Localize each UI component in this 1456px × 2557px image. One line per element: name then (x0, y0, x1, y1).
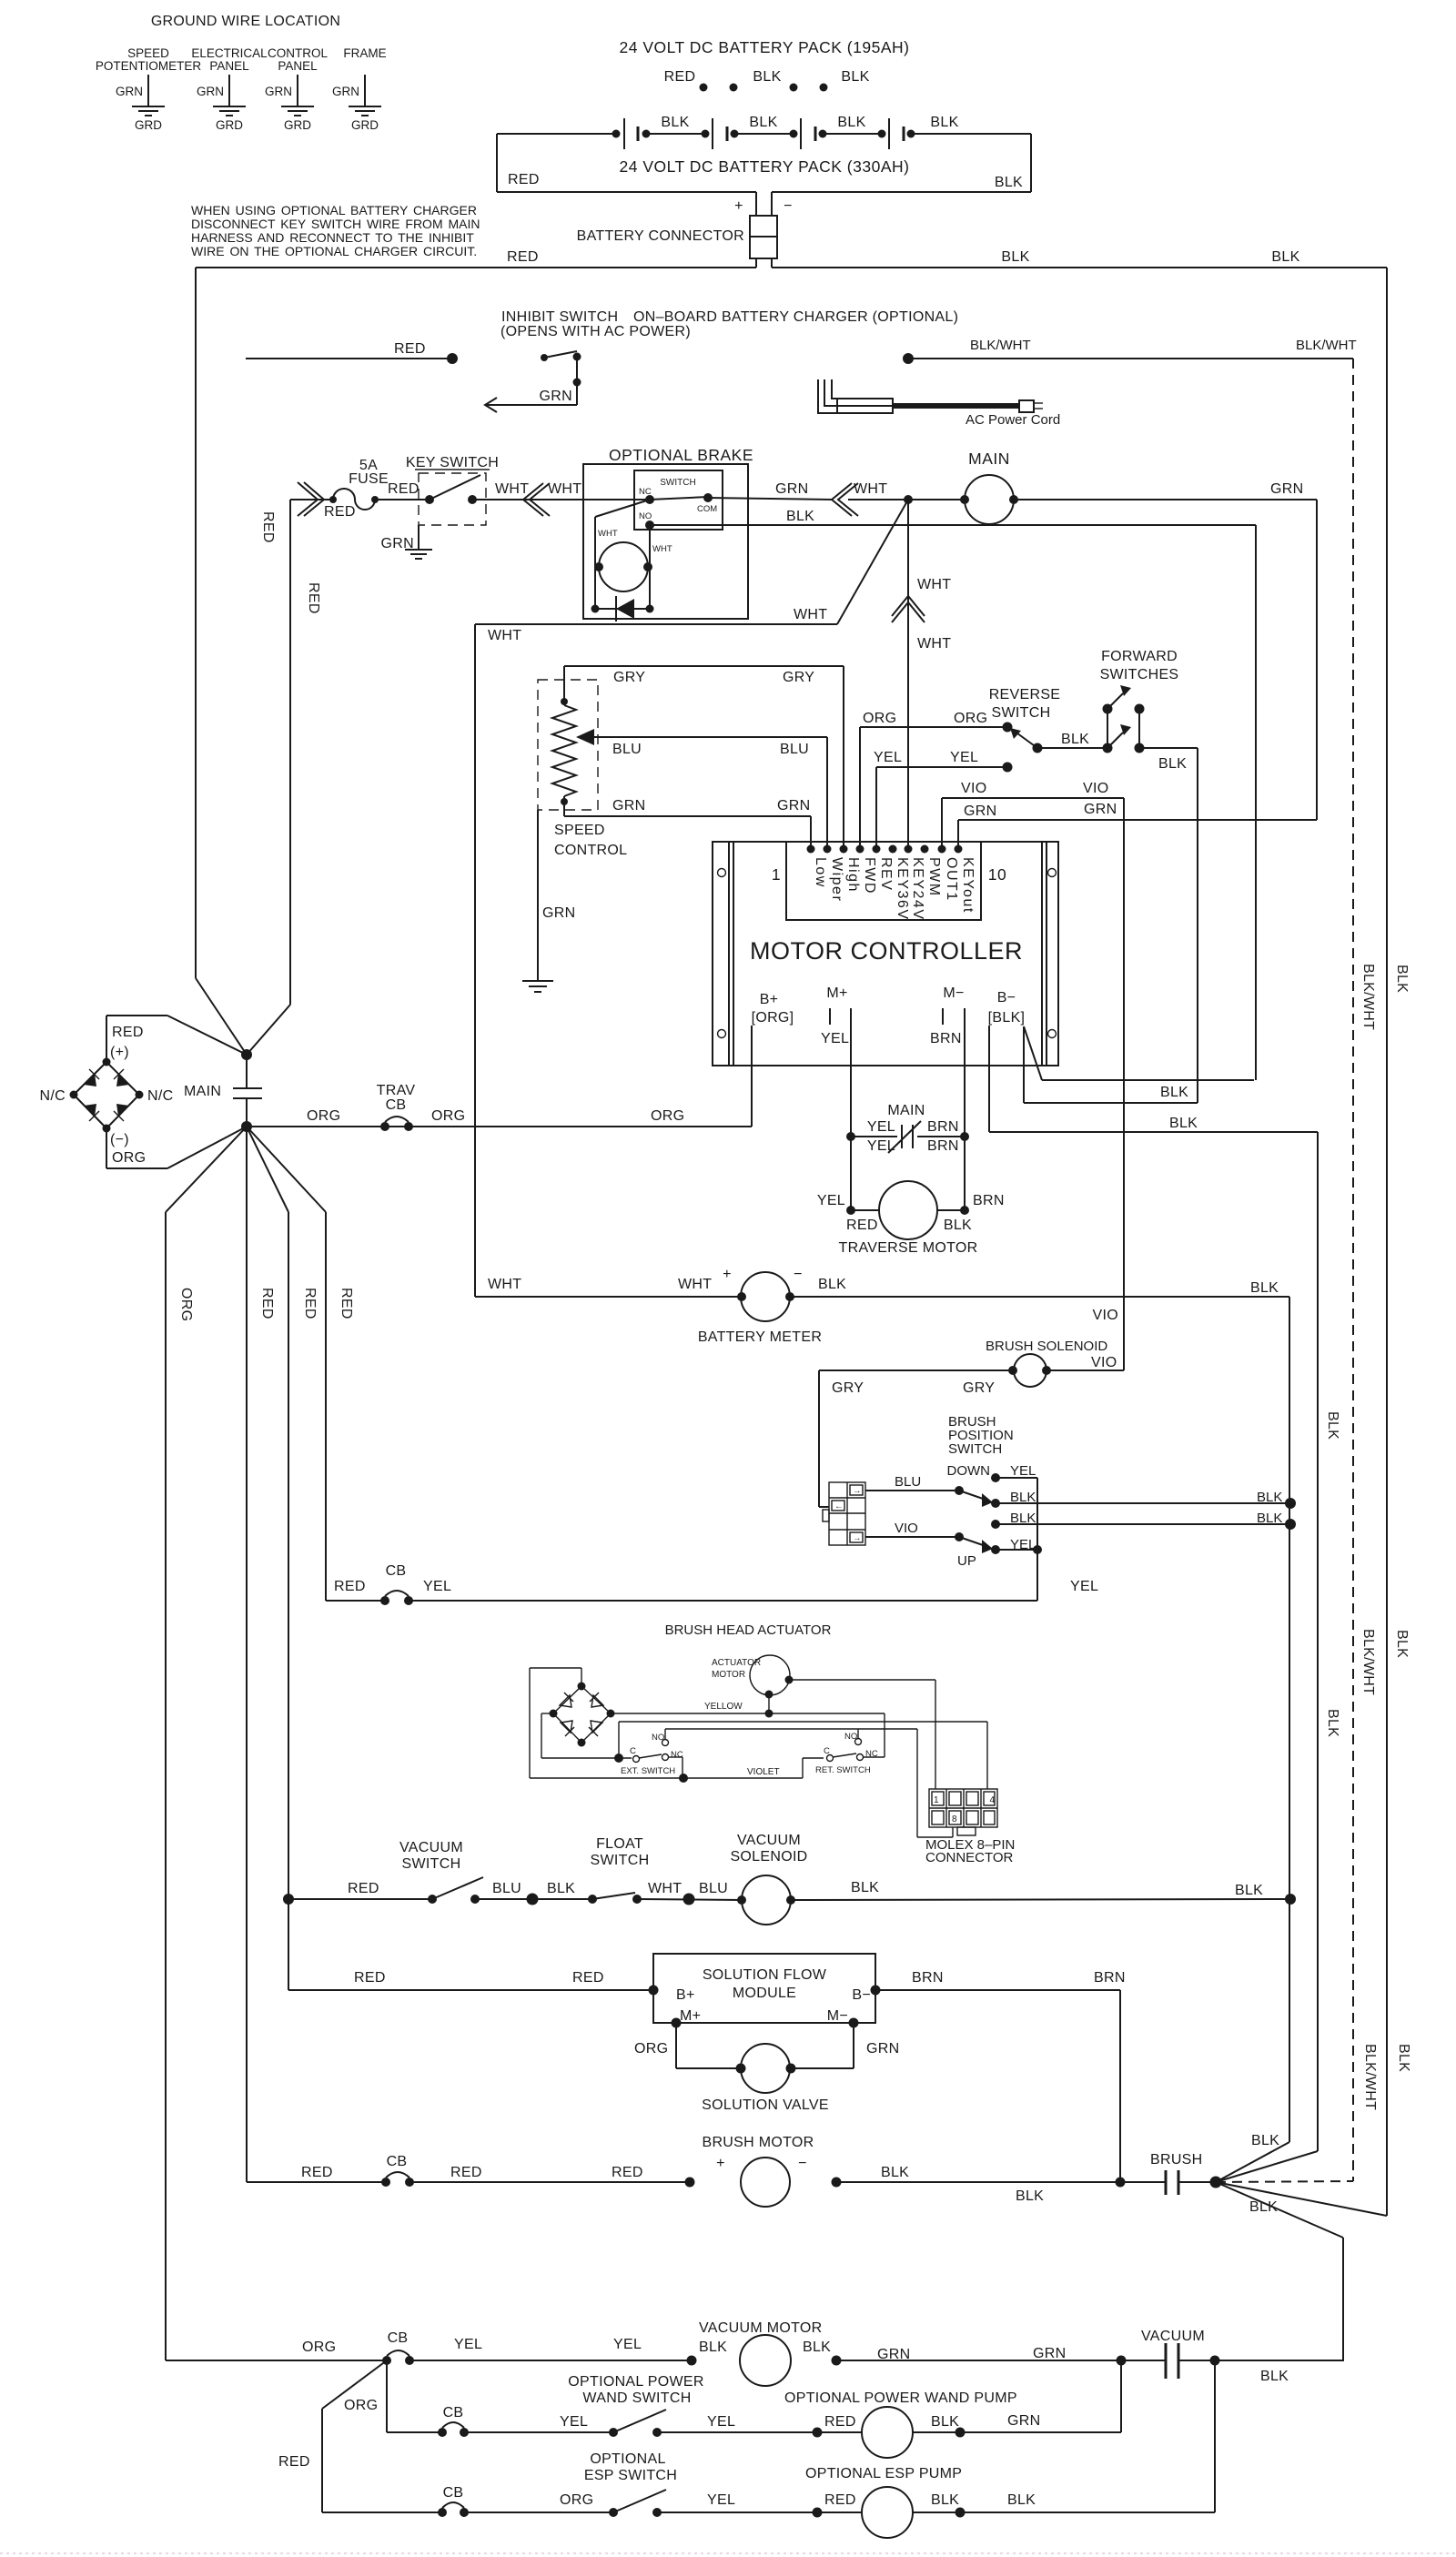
svg-text:SOLUTION FLOW: SOLUTION FLOW (703, 1967, 827, 1983)
svg-text:GRN: GRN (612, 798, 645, 814)
svg-text:BLK: BLK (1271, 249, 1299, 265)
svg-text:BLK: BLK (749, 115, 777, 130)
ground symbol speed control (522, 981, 553, 992)
wire actuator motor to molex pin1 (789, 1680, 935, 1789)
actuator bridge rectifier (550, 1683, 615, 1747)
chevron wire-break right-pointing (298, 482, 324, 516)
battery cell B3 (790, 118, 827, 149)
junction dot fuse left (329, 496, 337, 503)
wire YEL REV pin to reverse switch throw (874, 750, 1013, 849)
wire RED key switch rail with vertical x320 to bridge (247, 500, 333, 1055)
chevron wire-break left-pointing at WHT (523, 483, 550, 516)
junction dot RED feed vacuum rail (283, 1894, 294, 1905)
svg-text:ORG: ORG (651, 1108, 684, 1124)
svg-text:−: − (794, 1267, 803, 1282)
svg-text:POTENTIOMETER: POTENTIOMETER (96, 59, 202, 73)
svg-text:OPTIONAL POWER WAND PUMP: OPTIONAL POWER WAND PUMP (784, 2390, 1017, 2406)
svg-text:ORG: ORG (178, 1288, 194, 1321)
wire bridge plus pentagon to node (106, 1016, 247, 1062)
wire fuse to key switch (375, 499, 430, 500)
svg-text:RED: RED (339, 1288, 354, 1319)
esp pump (862, 2487, 966, 2538)
svg-text:OPTIONAL ESP PUMP: OPTIONAL ESP PUMP (805, 2466, 962, 2481)
svg-text:GRN: GRN (540, 389, 572, 404)
brush solenoid (986, 1339, 1124, 1387)
svg-text:M+: M+ (826, 985, 847, 1001)
actuator motor (712, 1655, 794, 1699)
svg-text:[BLK]: [BLK] (988, 1010, 1026, 1026)
svg-text:RED: RED (348, 1881, 379, 1896)
svg-text:YEL: YEL (560, 2414, 588, 2430)
svg-text:YEL: YEL (817, 1193, 845, 1208)
wire RED vertical bus x215 from battery bus to bridge (196, 268, 247, 1055)
svg-text:BLK: BLK (1257, 1511, 1282, 1526)
svg-text:VACUUM MOTOR: VACUUM MOTOR (699, 2320, 822, 2336)
wire RED esp branch (278, 2360, 387, 2512)
svg-text:CB: CB (386, 1563, 407, 1579)
svg-text:GROUND WIRE LOCATION: GROUND WIRE LOCATION (151, 14, 340, 29)
brush motor (716, 2156, 841, 2207)
vacuum solenoid (737, 1875, 795, 1925)
wire BLK B- left to x1448 bus (989, 1026, 1318, 2151)
svg-text:ORG: ORG (863, 711, 896, 726)
svg-text:OUT1: OUT1 (944, 857, 959, 902)
wire BLK B- to forward switch bus (1024, 1026, 1198, 1103)
svg-text:GRN: GRN (1270, 481, 1303, 497)
svg-text:ORG: ORG (560, 2492, 593, 2508)
svg-text:(−): (−) (110, 1132, 129, 1147)
svg-text:BRN: BRN (1094, 1970, 1126, 1986)
svg-text:CB: CB (386, 1097, 407, 1113)
svg-text:ORG: ORG (344, 2398, 378, 2413)
svg-text:ON–BOARD BATTERY CHARGER (O: ON–BOARD BATTERY CHARGER (OPTIONAL) (633, 309, 958, 325)
svg-text:Low: Low (813, 857, 828, 888)
wire BLK brake NO to right bus (650, 509, 1256, 1080)
svg-text:BRUSH: BRUSH (1150, 2152, 1203, 2168)
wire EXT NC to violet rail (668, 1757, 688, 1783)
svg-text:BRN: BRN (927, 1119, 959, 1135)
wire RED main bus y294 (196, 249, 756, 268)
wire BLK brush motor to brush contact (836, 2165, 1166, 2204)
svg-text:BLK: BLK (699, 2340, 727, 2355)
svg-text:CONTROL: CONTROL (554, 843, 627, 858)
svg-text:→: → (853, 1486, 862, 1496)
svg-text:GRN: GRN (777, 798, 810, 814)
wire GRN key switch ground drop (381, 525, 419, 551)
svg-text:FRAME: FRAME (343, 46, 386, 60)
wire brake NO down to diode (649, 525, 651, 609)
svg-text:BLK/WHT: BLK/WHT (1362, 2044, 1378, 2110)
svg-text:DOWN: DOWN (947, 1463, 991, 1479)
svg-text:BLK/WHT: BLK/WHT (1360, 1629, 1376, 1695)
wire BLU vacuum switch to float switch (475, 1881, 592, 1905)
wire BLK cell1-cell2 (646, 115, 705, 134)
svg-text:ORG: ORG (307, 1108, 340, 1124)
ground drop ELECTRICAL PANEL (191, 46, 268, 132)
svg-text:YEL: YEL (1070, 1579, 1098, 1594)
svg-text:RED: RED (324, 504, 356, 520)
svg-text:SWITCHES: SWITCHES (1100, 667, 1179, 682)
svg-text:BLK: BLK (1251, 2133, 1279, 2148)
svg-text:BRUSH SOLENOID: BRUSH SOLENOID (986, 1339, 1107, 1354)
svg-text:RED: RED (572, 1970, 604, 1986)
wire BLK esp pump to vacuum rail (913, 2360, 1215, 2512)
svg-text:COM: COM (697, 504, 717, 514)
svg-text:YEL: YEL (874, 750, 902, 765)
svg-text:WIRE ON THE OPTIONAL CHARGER C: WIRE ON THE OPTIONAL CHARGER CIRCUIT. (191, 244, 477, 258)
wire BLK cell4 to loop right (911, 115, 1031, 134)
svg-text:High: High (845, 857, 861, 893)
svg-text:GRN: GRN (1033, 2346, 1066, 2361)
esp switch (609, 2490, 666, 2517)
svg-text:←: ← (834, 1501, 844, 1511)
svg-text:FWD: FWD (862, 857, 877, 894)
svg-text:VACUUM: VACUUM (1141, 2329, 1205, 2344)
svg-text:MAIN: MAIN (968, 450, 1010, 468)
svg-text:BLK: BLK (753, 69, 781, 85)
controller terminal M- (930, 985, 965, 1046)
svg-text:+: + (723, 1267, 732, 1282)
wire YEL RED wand switch to pump (657, 2414, 862, 2438)
svg-text:RED: RED (664, 69, 696, 85)
svg-text:GRN: GRN (116, 85, 143, 98)
wire BLK up switch to x1418 (991, 1511, 1296, 1530)
svg-text:GRD: GRD (216, 118, 243, 132)
svg-text:24 VOLT DC BATTERY PACK (: 24 VOLT DC BATTERY PACK (330AH) (620, 157, 910, 176)
label BRUSH POSITION SWITCH (948, 1414, 1014, 1457)
wire BLK fan to battery bus x1524 (1216, 2182, 1387, 2216)
svg-text:BLK: BLK (1169, 1116, 1198, 1131)
svg-text:MAIN: MAIN (184, 1084, 221, 1099)
controller pin dots 1-10 (807, 845, 963, 854)
svg-text:C: C (630, 1746, 636, 1756)
wire WHT vertical to controller KEY24V (908, 500, 951, 848)
wire BLK fan to x1448 bus (1216, 2151, 1318, 2182)
svg-text:N/C: N/C (40, 1088, 66, 1104)
svg-text:NO: NO (652, 1733, 664, 1743)
svg-text:WHT: WHT (652, 544, 672, 554)
MAIN coil (908, 450, 1018, 524)
svg-text:GRN: GRN (1084, 802, 1117, 817)
svg-text:GRD: GRD (351, 118, 379, 132)
svg-text:OPTIONAL POWER: OPTIONAL POWER (568, 2374, 703, 2390)
chevron wire-break left-pointing before MAIN (832, 483, 858, 516)
forward switches (1100, 649, 1179, 753)
svg-text:SWITCH: SWITCH (660, 478, 695, 488)
svg-text:KEY24V: KEY24V (910, 857, 925, 920)
svg-text:CB: CB (387, 2154, 408, 2169)
chevron wire-break up-pointing on WHT vertical (892, 596, 925, 622)
svg-text:BLK: BLK (1325, 1709, 1340, 1737)
svg-text:BLK: BLK (841, 69, 869, 85)
svg-text:VIO: VIO (961, 781, 986, 796)
wire GRN MAIN to right bus x1447 (1014, 481, 1317, 820)
svg-text:MOTOR: MOTOR (712, 1670, 745, 1680)
svg-text:RED: RED (388, 481, 420, 497)
svg-text:BLK: BLK (995, 175, 1023, 190)
wire VIO OUT1 to brush solenoid bus (942, 781, 1124, 1370)
svg-text:RED: RED (824, 2492, 856, 2508)
wire into brake NC (583, 499, 650, 500)
svg-text:(+): (+) (110, 1045, 129, 1060)
solution valve (634, 2023, 899, 2113)
svg-text:BLK: BLK (851, 1880, 879, 1895)
battery cell B4 (878, 118, 915, 149)
reverse switch (989, 687, 1061, 748)
ground drop SPEED POTENTIOMETER (96, 46, 202, 132)
wire YEL rail brush lift (326, 1579, 1098, 1601)
wire YEL vacuum CB to motor (409, 2337, 727, 2366)
wire ORG FWD pin to reverse switch (860, 711, 1007, 849)
svg-text:SWITCH: SWITCH (948, 1441, 1002, 1457)
svg-text:BLU: BLU (780, 742, 809, 757)
AC power cord (818, 379, 1060, 428)
svg-text:YEL: YEL (950, 750, 978, 765)
brush position UP contact (957, 1478, 1042, 1601)
wire BLK right vertical bus x1524 (1386, 268, 1388, 2216)
svg-text:BLU: BLU (895, 1474, 921, 1490)
wire NO net to molex pin8 (665, 1729, 953, 1837)
svg-text:ORG: ORG (112, 1150, 146, 1166)
svg-text:PANEL: PANEL (209, 59, 249, 73)
svg-text:RED: RED (112, 1025, 144, 1040)
svg-text:−: − (798, 2156, 807, 2171)
svg-text:INHIBIT SWITCH: INHIBIT SWITCH (501, 309, 618, 325)
ground symbol key switch (405, 550, 432, 559)
svg-text:GRY: GRY (613, 670, 645, 685)
svg-text:NO: NO (639, 511, 652, 521)
battery pack 195AH stub dots with wire labels RED BLK BLK (664, 69, 870, 92)
svg-text:YEL: YEL (867, 1119, 895, 1135)
svg-text:RED: RED (334, 1579, 366, 1594)
wire BLK vacuum solenoid to x1418 bus (791, 1880, 1296, 1905)
controller terminal M+ (821, 985, 851, 1046)
wire GRN KEYout to GRN bus (958, 802, 1317, 849)
svg-text:BLK/WHT: BLK/WHT (970, 338, 1031, 353)
svg-text:B−: B− (997, 990, 1016, 1006)
controller terminal B- [BLK] (988, 990, 1026, 1026)
svg-text:BLK: BLK (1160, 1085, 1188, 1100)
solution flow module (649, 1954, 881, 2028)
battery cell B2 (702, 118, 739, 149)
page edge marker (0, 2552, 1456, 2554)
label VACUUM SWITCH (399, 1840, 463, 1872)
svg-text:−: − (784, 198, 793, 214)
wire ORG B+ to TRAV CB (247, 1026, 752, 1127)
wire bridge minus pentagon to node (106, 1127, 247, 1168)
circuit breaker brush CB (381, 2154, 414, 2187)
svg-text:WHT: WHT (548, 481, 581, 497)
svg-text:CB: CB (443, 2405, 464, 2421)
battery connector (577, 192, 793, 268)
svg-text:YEL: YEL (867, 1138, 895, 1154)
wire ORG branch to vacuum motor rail (166, 1127, 247, 2360)
svg-text:GRN: GRN (332, 85, 359, 98)
svg-text:BLK: BLK (1325, 1411, 1340, 1440)
svg-text:YELLOW: YELLOW (704, 1702, 743, 1712)
ground drop FRAME (332, 46, 387, 132)
wire RED branch to brush motor rail (246, 1127, 248, 2182)
svg-text:8: 8 (952, 1814, 957, 1824)
svg-text:GRY: GRY (832, 1380, 864, 1396)
wire BLK/WHT dashed vertical bus x1487 (1352, 359, 1354, 2181)
svg-text:KEY36V: KEY36V (895, 857, 910, 920)
svg-text:HARNESS AND RECONNECT TO THE I: HARNESS AND RECONNECT TO THE INHIBIT (191, 230, 474, 245)
svg-text:CONNECTOR: CONNECTOR (925, 1850, 1014, 1865)
svg-text:+: + (734, 198, 743, 214)
svg-text:VIO: VIO (895, 1521, 918, 1536)
svg-text:TRAVERSE MOTOR: TRAVERSE MOTOR (839, 1240, 978, 1256)
junction dot upper MAIN contactor node (241, 1049, 252, 1060)
svg-text:UP: UP (957, 1553, 976, 1569)
brake switch box (634, 470, 723, 530)
svg-text:MOTOR CONTROLLER: MOTOR CONTROLLER (750, 937, 1023, 965)
svg-text:BLU: BLU (492, 1881, 521, 1896)
svg-text:WHT: WHT (598, 529, 618, 539)
svg-text:BLK/WHT: BLK/WHT (1360, 964, 1376, 1030)
svg-text:BRUSH HEAD ACTUATOR: BRUSH HEAD ACTUATOR (665, 1622, 832, 1638)
actuator EXT switch (621, 1733, 683, 1776)
svg-text:RED: RED (450, 2165, 482, 2180)
svg-text:YEL: YEL (707, 2414, 735, 2430)
svg-text:B−: B− (852, 1987, 871, 2003)
label OPTIONAL ESP SWITCH (584, 2451, 677, 2483)
svg-text:24 VOLT DC BATTERY PACK (: 24 VOLT DC BATTERY PACK (195AH) (620, 38, 910, 56)
svg-text:BLU: BLU (699, 1881, 728, 1896)
brush position switch connector (823, 1482, 865, 1545)
svg-text:BRN: BRN (927, 1138, 959, 1154)
speed control potentiometer (538, 666, 627, 858)
wire GRN vacuum motor to vacuum contact (836, 2346, 1166, 2366)
brush position DOWN contact (947, 1463, 1038, 1482)
svg-text:SWITCH: SWITCH (992, 705, 1051, 721)
junction dot WHT node (904, 495, 913, 504)
svg-text:M−: M− (827, 2008, 848, 2024)
svg-text:BRN: BRN (973, 1193, 1005, 1208)
svg-text:YEL: YEL (1010, 1463, 1036, 1479)
molex 8-pin connector (925, 1789, 1015, 1865)
svg-text:GRN: GRN (1007, 2413, 1040, 2429)
svg-text:REVERSE: REVERSE (989, 687, 1061, 702)
contact MAIN contactor tips (233, 1055, 262, 1127)
svg-text:VIO: VIO (1091, 1355, 1117, 1370)
circuit breaker wand CB (387, 2405, 469, 2437)
wire BLU wiper to controller (576, 729, 827, 848)
svg-text:BLK/WHT: BLK/WHT (1296, 338, 1357, 353)
vacuum switch (428, 1877, 483, 1904)
svg-text:BLK: BLK (930, 115, 958, 130)
wire BLK forward switches to x1316 bus (1139, 748, 1198, 1103)
wire GRN inhibit arrow (485, 389, 577, 412)
svg-text:MODULE: MODULE (733, 1986, 796, 2001)
svg-text:VIO: VIO (1083, 781, 1108, 796)
svg-text:BLK: BLK (1257, 1490, 1282, 1505)
wire BLU to down switch (865, 1474, 993, 1507)
key switch (406, 455, 499, 525)
svg-text:GRN: GRN (964, 803, 996, 819)
svg-text:WHT: WHT (794, 607, 827, 622)
svg-text:1: 1 (934, 1795, 939, 1805)
svg-text:4: 4 (989, 1795, 995, 1805)
svg-text:BLU: BLU (612, 742, 642, 757)
contact MAIN traverse reversing (846, 1103, 969, 1154)
svg-text:FLOAT: FLOAT (596, 1836, 643, 1852)
svg-text:GRD: GRD (135, 118, 162, 132)
svg-text:ELECTRICAL: ELECTRICAL (191, 46, 268, 60)
svg-text:KEY SWITCH: KEY SWITCH (406, 455, 499, 470)
svg-text:WHT: WHT (678, 1277, 712, 1292)
svg-text:BLK: BLK (818, 1277, 846, 1292)
label VACUUM SOLENOID (730, 1833, 807, 1865)
svg-text:GRD: GRD (284, 118, 311, 132)
svg-text:RED: RED (508, 172, 540, 187)
svg-text:RET. SWITCH: RET. SWITCH (815, 1765, 871, 1775)
wire BLK fan to x1418 bus (1216, 2133, 1289, 2182)
svg-text:FUSE: FUSE (349, 471, 389, 487)
wire GRN pot bottom to controller Low (564, 798, 811, 848)
wire RED CB to brush motor (409, 2165, 695, 2188)
wire VIOLET rail (683, 1758, 824, 1778)
wire ORG esp CB to switch (464, 2492, 613, 2512)
svg-text:B+: B+ (676, 1987, 695, 2003)
wire RED vertical to solution flow module (288, 1899, 653, 1990)
svg-text:GRN: GRN (542, 905, 575, 921)
wire BLK/WHT charger output (903, 338, 1357, 364)
svg-text:BLK: BLK (944, 1218, 972, 1233)
wire RED branch to vacuum switch rail (247, 1127, 288, 1899)
wire BLK cell2-cell3 (734, 115, 794, 134)
svg-text:N/C: N/C (147, 1088, 173, 1104)
svg-text:WHT: WHT (854, 481, 887, 497)
wire GRN pot to ground (538, 810, 575, 981)
svg-text:SWITCH: SWITCH (402, 1856, 461, 1872)
contact BRUSH interlock (1150, 2152, 1216, 2195)
svg-text:YEL: YEL (613, 2337, 642, 2352)
svg-text:VACUUM: VACUUM (399, 1840, 463, 1855)
svg-text:RED: RED (302, 1288, 318, 1319)
wire ORG vacuum motor rail (166, 2340, 387, 2360)
svg-text:WHEN USING OPTIONAL BATTERY CH: WHEN USING OPTIONAL BATTERY CHARGER (191, 203, 477, 217)
svg-text:BLK: BLK (1250, 1280, 1279, 1296)
svg-text:OPTIONAL: OPTIONAL (590, 2451, 665, 2467)
svg-text:RED: RED (824, 2414, 856, 2430)
svg-text:PANEL: PANEL (278, 59, 318, 73)
svg-text:GRY: GRY (783, 670, 814, 685)
circuit breaker TRAV CB (377, 1083, 416, 1131)
brake coil (594, 542, 672, 591)
svg-text:BLK: BLK (1394, 1630, 1410, 1658)
svg-text:YEL: YEL (821, 1031, 849, 1046)
svg-text:DISCONNECT KEY SWITCH WIRE FRO: DISCONNECT KEY SWITCH WIRE FROM MAIN (191, 217, 480, 231)
controller terminal B+ [ORG] (752, 992, 794, 1026)
battery meter (475, 1267, 822, 1345)
motor controller box (713, 842, 1058, 1066)
svg-text:Wiper: Wiper (829, 857, 844, 902)
wire BLK down switch to x1418 (991, 1490, 1296, 1509)
svg-text:SPEED: SPEED (127, 46, 169, 60)
svg-text:WHT: WHT (648, 1881, 682, 1896)
svg-text:GRN: GRN (775, 481, 808, 497)
svg-text:GRY: GRY (963, 1380, 995, 1396)
wire BLK cell3-cell4 (823, 115, 882, 134)
svg-text:BRUSH MOTOR: BRUSH MOTOR (702, 2135, 814, 2150)
battery cell B1 (612, 118, 651, 149)
svg-text:REV: REV (878, 857, 894, 891)
svg-text:TRAV: TRAV (377, 1083, 416, 1098)
svg-text:PWM: PWM (926, 857, 942, 897)
svg-text:ESP SWITCH: ESP SWITCH (584, 2468, 677, 2483)
svg-text:WHT: WHT (917, 577, 951, 592)
